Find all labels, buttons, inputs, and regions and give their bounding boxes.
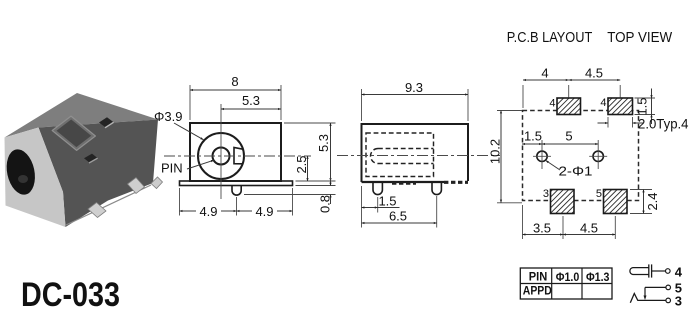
hidden pads left bbox=[392, 182, 416, 185]
svg-text:4.5: 4.5 bbox=[580, 221, 598, 236]
svg-text:P.C.B LAYOUT: P.C.B LAYOUT bbox=[507, 30, 593, 46]
terminal 3 bbox=[666, 293, 682, 308]
svg-text:TOP VIEW: TOP VIEW bbox=[607, 30, 672, 46]
svg-text:3.5: 3.5 bbox=[533, 221, 551, 236]
pad 5 bbox=[596, 188, 627, 214]
label PIN bbox=[161, 160, 214, 175]
front flange bbox=[180, 181, 293, 186]
dimension 6.5 bbox=[362, 196, 437, 228]
side pin leg 1 bbox=[373, 183, 382, 195]
svg-text:Φ1.0: Φ1.0 bbox=[556, 270, 580, 284]
key notch bbox=[234, 148, 243, 164]
svg-text:4.9: 4.9 bbox=[255, 204, 273, 219]
terminal 4 bbox=[666, 264, 683, 279]
hole 2 bbox=[589, 140, 607, 169]
svg-text:4: 4 bbox=[675, 264, 683, 279]
top slot bbox=[99, 117, 113, 127]
pad 4 left bbox=[549, 98, 580, 115]
vertical centerline bbox=[220, 104, 222, 199]
left face with hole bbox=[5, 128, 66, 228]
top recess plate bbox=[52, 116, 95, 150]
svg-text:2.5: 2.5 bbox=[294, 155, 309, 173]
dimension 2.5 bbox=[294, 155, 309, 181]
svg-text:1.5: 1.5 bbox=[524, 129, 542, 144]
svg-text:5: 5 bbox=[565, 129, 572, 144]
dimension 4.5 top bbox=[569, 66, 621, 98]
barrel hole bbox=[3, 147, 39, 198]
dimension 4.5 bottom bbox=[563, 216, 615, 239]
svg-text:4.5: 4.5 bbox=[585, 66, 603, 81]
svg-text:4: 4 bbox=[549, 98, 555, 110]
svg-text:8: 8 bbox=[231, 74, 238, 89]
svg-text:Φ1.3: Φ1.3 bbox=[586, 270, 610, 284]
dark front face bbox=[39, 120, 159, 228]
pad 3 bbox=[543, 188, 574, 214]
dimension 4 top bbox=[523, 66, 569, 109]
hole 1 bbox=[533, 140, 551, 169]
svg-text:4.9: 4.9 bbox=[199, 204, 217, 219]
pin 1 bbox=[88, 203, 106, 218]
dimension 1.5 side bbox=[362, 186, 400, 228]
locating tab bbox=[232, 186, 241, 196]
front body bbox=[190, 123, 281, 181]
svg-text:PIN: PIN bbox=[529, 270, 548, 284]
svg-text:6.5: 6.5 bbox=[389, 209, 407, 224]
bottom flange strip bbox=[66, 185, 151, 225]
barrel circle bbox=[198, 133, 244, 179]
svg-text:0.8: 0.8 bbox=[318, 195, 333, 213]
dimension 8 bbox=[190, 74, 281, 120]
dimension 10.2 bbox=[488, 111, 523, 203]
svg-text:3: 3 bbox=[543, 188, 549, 200]
svg-text:DC-033: DC-033 bbox=[21, 276, 120, 314]
svg-text:2.4: 2.4 bbox=[645, 192, 660, 210]
svg-text:APPD: APPD bbox=[523, 284, 552, 298]
pin 3 bbox=[151, 177, 163, 189]
hidden cavity rect bbox=[366, 133, 434, 177]
dimension 5.3 top bbox=[221, 93, 281, 109]
svg-text:9.3: 9.3 bbox=[405, 80, 423, 95]
svg-text:4: 4 bbox=[541, 66, 548, 81]
dimension 4.9 4.9 bbox=[180, 188, 293, 219]
movable contact link bbox=[644, 287, 666, 300]
svg-text:5.3: 5.3 bbox=[242, 93, 260, 108]
svg-text:1.5: 1.5 bbox=[635, 97, 650, 115]
svg-text:PIN: PIN bbox=[161, 161, 183, 176]
svg-text:3: 3 bbox=[675, 293, 682, 308]
svg-text:Φ3.9: Φ3.9 bbox=[154, 109, 182, 124]
svg-text:1.5: 1.5 bbox=[378, 194, 396, 209]
svg-text:10.2: 10.2 bbox=[488, 139, 503, 164]
pin 2 bbox=[128, 178, 145, 194]
3D photo of DC jack component bbox=[3, 93, 163, 227]
dimension 5.3 right bbox=[284, 123, 336, 181]
center pin circle bbox=[213, 148, 230, 165]
dimension 1.5 pad height bbox=[635, 89, 656, 125]
dimension 9.3 bbox=[362, 80, 469, 121]
svg-text:2-Φ1: 2-Φ1 bbox=[559, 164, 593, 179]
hidden center pin bbox=[371, 149, 434, 164]
pad 4 right bbox=[600, 97, 632, 115]
dimension 5 mid bbox=[542, 129, 598, 145]
dimension 2.0 Typ.4 bbox=[598, 117, 689, 132]
hidden pads right bbox=[444, 181, 468, 184]
label dia 3.9 bbox=[154, 109, 203, 140]
label 2-dia1 bbox=[546, 161, 593, 179]
dimension 1.5 mid bbox=[522, 129, 542, 145]
front slot bbox=[84, 154, 97, 163]
svg-text:5: 5 bbox=[596, 188, 602, 200]
dimension 2.4 bbox=[630, 190, 660, 214]
svg-text:5.3: 5.3 bbox=[316, 134, 331, 152]
dimension 0.8 bbox=[244, 176, 336, 213]
side centerline bbox=[337, 155, 500, 157]
terminal 5 bbox=[666, 280, 682, 295]
horizontal centerline bbox=[164, 155, 311, 157]
footprint outline dashed bbox=[523, 111, 639, 201]
part number DC-033 bbox=[21, 276, 120, 314]
svg-text:2.0Typ.4: 2.0Typ.4 bbox=[638, 117, 689, 132]
switch contact bbox=[630, 294, 665, 303]
side body bbox=[362, 124, 469, 182]
svg-text:4: 4 bbox=[600, 97, 606, 109]
title bbox=[507, 30, 673, 46]
top face bbox=[5, 93, 159, 138]
side pin leg 2 bbox=[432, 183, 441, 195]
plug barrel bbox=[630, 264, 665, 277]
dimension 3.5 bottom bbox=[523, 205, 564, 239]
